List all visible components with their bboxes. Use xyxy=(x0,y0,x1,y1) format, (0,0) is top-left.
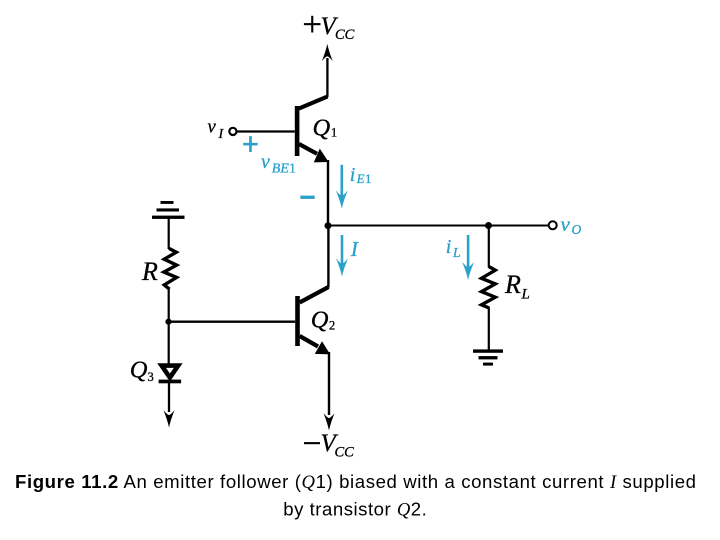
svg-text:v: v xyxy=(208,118,217,138)
wire rail to R xyxy=(168,218,170,249)
svg-text:E: E xyxy=(356,171,365,186)
iL arrow xyxy=(463,235,474,280)
svg-text:BE: BE xyxy=(272,162,290,177)
svg-text:1: 1 xyxy=(365,171,372,186)
svg-text:CC: CC xyxy=(335,27,355,43)
supply rail symbol (top of R branch) xyxy=(152,201,185,219)
svg-text:Figure 11.2 An emitter followe: Figure 11.2 An emitter follower (Q1) bia… xyxy=(15,471,696,493)
-VCC supply label xyxy=(304,430,354,461)
svg-text:R: R xyxy=(504,270,521,299)
svg-text:Q: Q xyxy=(130,357,148,384)
ground xyxy=(473,349,503,365)
wire Q1 emitter to node xyxy=(327,160,329,226)
output wire xyxy=(328,225,549,227)
output terminal vO xyxy=(549,221,557,229)
svg-text:CC: CC xyxy=(335,445,355,461)
wire R to node C xyxy=(168,289,170,323)
RL label xyxy=(504,270,530,303)
svg-text:v: v xyxy=(261,151,270,173)
svg-text:O: O xyxy=(572,222,582,237)
vBE1 label xyxy=(261,151,296,177)
iE1 arrow xyxy=(336,165,347,208)
svg-text:I: I xyxy=(350,237,359,261)
Q1 label xyxy=(313,115,338,142)
svg-text:3: 3 xyxy=(148,370,154,384)
diode-connected transistor Q3 xyxy=(159,366,182,384)
resistor R xyxy=(164,248,177,289)
transistor Q1 xyxy=(295,97,329,163)
svg-text:L: L xyxy=(452,246,461,261)
resistor RL xyxy=(482,267,496,308)
wire RL to ground xyxy=(488,307,490,351)
wire Q2 emitter to -VCC arrow xyxy=(324,352,335,431)
svg-text:2: 2 xyxy=(329,319,335,333)
Q2 label xyxy=(311,307,335,334)
svg-text:1: 1 xyxy=(289,162,296,177)
node A (emitter node) xyxy=(325,222,332,229)
svg-text:i: i xyxy=(350,164,356,186)
wire node C to Q3 xyxy=(168,322,170,365)
wire node A to Q2 collector xyxy=(327,226,329,288)
svg-text:i: i xyxy=(446,236,452,258)
svg-text:Q: Q xyxy=(311,307,329,334)
wire node B to RL xyxy=(488,226,490,268)
svg-text:1: 1 xyxy=(331,126,337,140)
iL label xyxy=(446,236,461,261)
node B (RL junction) xyxy=(485,222,492,229)
wire Q3 to -VCC with down arrow xyxy=(164,383,175,428)
vO label xyxy=(561,212,582,237)
svg-text:Q: Q xyxy=(313,115,331,142)
transistor Q2 xyxy=(295,287,330,354)
svg-text:R: R xyxy=(141,257,158,286)
plus sign (vBE1 polarity) xyxy=(243,136,257,152)
node C (R / Q3 / Q2 base junction) xyxy=(165,319,171,325)
wire to +VCC with up arrow xyxy=(322,44,333,97)
iE1 label xyxy=(350,164,372,186)
Q3 label xyxy=(130,357,154,385)
wire node C to Q2 base xyxy=(169,321,296,323)
input terminal vI xyxy=(229,128,295,135)
vI label xyxy=(208,118,225,143)
+VCC supply label xyxy=(304,13,355,43)
svg-text:v: v xyxy=(561,212,571,236)
minus sign (vBE1 polarity) xyxy=(301,196,315,199)
svg-text:L: L xyxy=(521,287,530,303)
svg-text:by transistor Q2.: by transistor Q2. xyxy=(283,499,427,521)
current I arrow xyxy=(336,235,347,276)
